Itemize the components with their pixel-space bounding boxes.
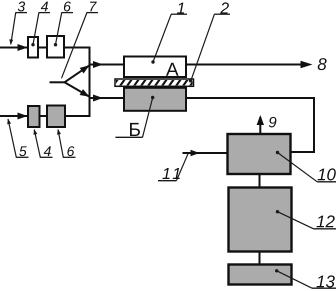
wire lower input [0, 115, 28, 117]
label 4 lower [44, 146, 51, 156]
label 1 [177, 3, 184, 14]
label 10 [317, 169, 325, 181]
label 8 [318, 58, 327, 70]
underline 4 lower [40, 156, 53, 158]
dot leader B [151, 96, 154, 99]
leader 3 [11, 13, 16, 45]
leader 4 upper [33, 13, 39, 45]
wire B to box10 [186, 98, 314, 152]
block 4 upper [28, 37, 38, 58]
label 5 [19, 146, 27, 156]
dot leader 1 [151, 60, 154, 63]
wire output 8 [186, 64, 302, 66]
dot leader 2 [189, 79, 192, 82]
underline 2 [214, 13, 230, 15]
dot leader 4 upper [31, 43, 34, 46]
block 12 [229, 188, 292, 252]
underline 12 [314, 228, 336, 230]
wire diagonal up [65, 65, 90, 82]
dot leader 13 [275, 269, 278, 272]
underline 10 [317, 181, 336, 183]
wire input 11 [183, 152, 228, 154]
wire 12-13 [259, 252, 261, 266]
label 2 [220, 2, 229, 13]
arrowhead 9 [257, 115, 264, 125]
tiny arrowhead leader 6 lower [56, 129, 61, 135]
label 6 lower [67, 146, 74, 156]
block 10 [228, 134, 291, 174]
label 11 [162, 168, 169, 179]
block 6 lower [47, 106, 65, 128]
label A [166, 63, 179, 76]
underline 7 [87, 12, 98, 14]
dot leader 6 upper [54, 43, 57, 46]
label 6 upper [64, 2, 71, 12]
block A (cell) [124, 57, 186, 78]
label 3 [18, 2, 25, 12]
arrowhead 11 [191, 150, 200, 157]
block B (gray cell) [124, 88, 186, 111]
dot leader 10 [276, 151, 279, 154]
leader 6 lower [58, 130, 63, 158]
label 9 [269, 117, 277, 128]
arrowhead input bottom [18, 113, 28, 120]
wire diagonal down [65, 82, 90, 97]
label 13 [316, 276, 324, 288]
membrane strip 2 [115, 79, 194, 86]
underline 4 upper [39, 12, 50, 14]
arrowhead beam A [93, 61, 103, 68]
block 4 lower [28, 106, 40, 127]
underline 11 [158, 180, 177, 182]
underline 6 lower [63, 156, 76, 158]
underline 3 [16, 12, 28, 14]
leader 4 lower [34, 130, 40, 158]
wire upper input [0, 47, 28, 49]
wire arrow 9 [259, 117, 261, 134]
leader 6 upper [56, 13, 62, 45]
arrowhead 8 [301, 61, 313, 68]
block 13 [229, 265, 292, 285]
wire 10-12 [259, 174, 261, 188]
underline 1 [171, 13, 187, 15]
label B cyrillic [130, 123, 140, 136]
arrowhead beam B [93, 95, 103, 102]
underline B [115, 136, 142, 138]
wire between 4 and 6 [38, 47, 47, 49]
arrowhead input top [18, 44, 28, 51]
label 4 upper [41, 2, 48, 12]
underline 6 upper [61, 12, 73, 14]
leader 12 [278, 212, 314, 229]
leader 13 [277, 271, 312, 288]
dot leader 12 [276, 210, 279, 213]
leader B [143, 98, 153, 138]
leader 11 [177, 154, 189, 181]
tiny arrowhead leader 3 [9, 39, 14, 45]
underline 5 [16, 156, 29, 158]
block 6 upper [47, 36, 64, 58]
wire beam to B [90, 97, 124, 99]
arrowhead diagonal down [80, 89, 92, 100]
wire from 6 to vertical, vertical bus, lower return [64, 48, 90, 117]
tiny arrowhead leader 4 lower [32, 129, 37, 135]
wire lower between 4 and 6 [40, 115, 48, 117]
label 12 [316, 216, 324, 228]
tiny arrowhead leader 5 [6, 118, 11, 124]
leader 10 [278, 153, 318, 182]
leader 2 [191, 14, 215, 81]
leader 5 [8, 119, 16, 157]
wire beam to A [90, 64, 124, 66]
leader 1 [153, 14, 171, 62]
label 7 [90, 2, 97, 12]
arrowhead diagonal up [80, 62, 92, 73]
leader 7 [62, 13, 87, 79]
underline 13 [312, 287, 336, 289]
node 7 stub [50, 81, 65, 83]
